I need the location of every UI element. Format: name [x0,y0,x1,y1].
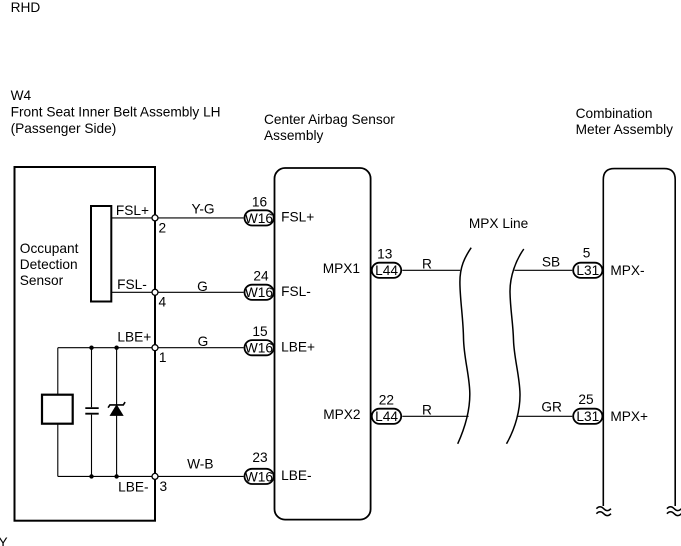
svg-text:MPX-: MPX- [610,263,644,278]
wire left branch to sensor square [57,348,59,477]
wire capacitor branch [91,348,93,477]
svg-text:(Passenger Side): (Passenger Side) [11,121,117,136]
capacitor C [85,408,98,414]
svg-text:MPX+: MPX+ [610,409,648,424]
svg-text:R: R [422,402,432,417]
svg-text:24: 24 [253,269,269,284]
svg-text:4: 4 [159,294,167,309]
connector W4: Front Seat Inner Belt Assembly box [15,167,156,521]
svg-text:W16: W16 [245,469,274,484]
zener diode cathode bar [108,402,125,408]
svg-text:L31: L31 [576,409,599,424]
zener diode anode triangle [110,405,122,415]
break symbol left leg of combination meter [596,507,611,516]
svg-text:Y: Y [0,535,8,546]
svg-text:FSL-: FSL- [281,284,311,299]
svg-text:FSL+: FSL+ [116,203,149,218]
ECU Combination Meter Assembly box (open bottom) [603,169,675,506]
svg-text:FSL-: FSL- [117,277,147,292]
wire MPX2 R [402,415,468,417]
MPX line break curve right [507,249,524,444]
svg-text:Center Airbag Sensor: Center Airbag Sensor [264,112,395,127]
svg-text:W16: W16 [245,285,274,300]
connector W16 pin 15 [245,340,274,355]
wire FSL+ [111,217,243,219]
svg-text:LBE+: LBE+ [117,329,151,344]
svg-text:W-B: W-B [187,457,213,472]
svg-text:R: R [422,256,432,271]
svg-text:25: 25 [578,392,594,407]
svg-text:W16: W16 [245,211,274,226]
svg-text:L44: L44 [375,409,398,424]
svg-text:G: G [198,334,209,349]
svg-text:Y-G: Y-G [191,201,214,216]
wire GR [518,415,573,417]
svg-text:L31: L31 [576,263,599,278]
svg-text:Assembly: Assembly [264,128,323,143]
connector L44 pin 22 [372,409,401,424]
svg-text:RHD: RHD [11,0,41,15]
svg-text:5: 5 [583,246,591,261]
svg-text:Detection: Detection [20,257,78,272]
pin 4 terminal circle [152,289,158,295]
svg-text:W4: W4 [11,88,32,103]
pin 2 terminal circle [152,215,158,221]
svg-text:23: 23 [252,450,268,465]
svg-text:LBE+: LBE+ [281,339,315,354]
svg-text:3: 3 [160,479,168,494]
svg-text:Meter Assembly: Meter Assembly [576,122,674,137]
svg-text:Front Seat Inner Belt Assembly: Front Seat Inner Belt Assembly LH [11,104,221,119]
svg-text:22: 22 [379,393,394,408]
svg-text:MPX2: MPX2 [323,407,360,422]
svg-text:W16: W16 [245,341,274,356]
connector L31 pin 25 [573,409,602,424]
svg-text:FSL+: FSL+ [281,210,314,225]
connector W16 pin 16 [245,210,274,225]
junction dot LBE+ / zener [114,346,118,350]
junction dot LBE- / zener [114,474,118,478]
MPX line break curve left [458,248,472,444]
wire LBE+ [58,347,244,349]
junction dot LBE- / capacitor [89,474,93,478]
ECU Center Airbag Sensor Assembly box [275,168,371,520]
svg-text:L44: L44 [375,263,398,278]
svg-text:13: 13 [377,247,393,262]
svg-text:G: G [197,279,208,294]
pin 3 terminal circle [152,473,158,479]
svg-text:Occupant: Occupant [20,241,79,256]
force sensor element bar [91,206,111,302]
sensor element square [42,395,73,424]
svg-text:LBE-: LBE- [281,468,311,483]
pin 1 terminal circle [152,345,158,351]
svg-text:MPX Line: MPX Line [469,216,528,231]
svg-text:LBE-: LBE- [118,480,148,495]
svg-text:16: 16 [252,194,268,209]
svg-text:15: 15 [252,324,268,339]
svg-text:GR: GR [541,400,562,415]
wire LBE- [58,475,244,477]
svg-text:SB: SB [542,255,560,270]
svg-text:Sensor: Sensor [20,273,64,288]
svg-text:Combination: Combination [576,106,653,121]
connector W16 pin 24 [245,285,274,300]
break symbol right leg of combination meter [667,507,681,516]
wire SB [514,269,572,271]
svg-text:MPX1: MPX1 [323,261,360,276]
junction dot LBE+ / capacitor [89,346,93,350]
wire zener branch [116,348,118,477]
wire MPX1 R [402,269,460,271]
connector W16 pin 23 [245,469,274,484]
wire FSL- [111,291,243,293]
connector L44 pin 13 [372,263,401,278]
connector L31 pin 5 [573,263,602,278]
svg-text:2: 2 [159,221,167,236]
svg-text:1: 1 [159,350,167,365]
